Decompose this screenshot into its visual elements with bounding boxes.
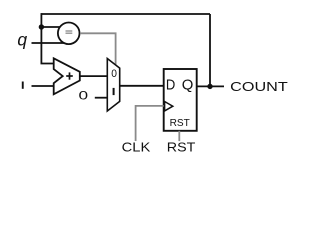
comparator circle — [58, 23, 80, 45]
svg-text:COUNT: COUNT — [230, 79, 288, 94]
wire: CLK to clock input (gray) — [136, 106, 164, 141]
wire: feedback right vertical — [209, 14, 211, 86]
wire: feedback left vertical down to adder input — [41, 13, 54, 63]
adder — [54, 58, 80, 94]
svg-text:q: q — [17, 29, 27, 49]
svg-text:0: 0 — [111, 68, 117, 80]
svg-text:RST: RST — [170, 118, 190, 129]
comparator = sign — [66, 31, 73, 33]
wire: Q output to COUNT — [197, 85, 224, 87]
wire: I to adder — [32, 85, 55, 87]
wire: constant 0 to mux input 1 — [95, 97, 108, 99]
wire: junction to comparator input — [41, 26, 61, 28]
svg-text:Q: Q — [182, 77, 194, 94]
mux — [107, 59, 119, 112]
junction dot (feedback to comparator) — [39, 24, 44, 29]
svg-text:CLK: CLK — [122, 140, 151, 155]
svg-text:D: D — [166, 77, 176, 94]
svg-text:0: 0 — [79, 89, 89, 103]
wire: comparator output to mux select (gray) — [80, 33, 116, 65]
svg-text:RST: RST — [167, 140, 196, 155]
D flip-flop box — [164, 69, 197, 131]
wire: adder output to mux input 0 — [80, 75, 108, 77]
wire: mux output to D input — [120, 85, 164, 87]
wire: q to comparator — [32, 42, 65, 44]
clock triangle — [165, 102, 173, 111]
junction dot (Q output to feedback) — [207, 84, 212, 89]
wire: feedback top horizontal — [41, 13, 210, 15]
label I — [22, 82, 24, 89]
adder + sign — [66, 72, 73, 79]
wire: RST to reset input (gray) — [178, 131, 180, 141]
mux input label 1 — [113, 88, 115, 95]
